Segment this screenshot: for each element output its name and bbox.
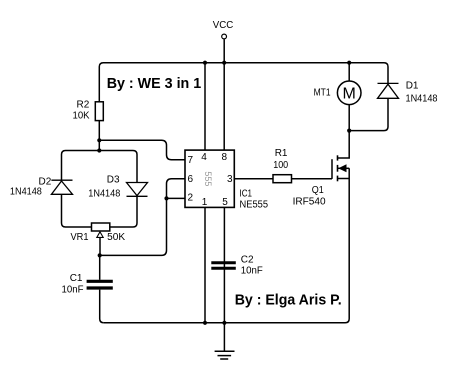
capacitor C2: [211, 263, 236, 269]
svg-text:C1: C1: [70, 273, 83, 284]
node motor/rail: [347, 61, 351, 65]
svg-text:Q1: Q1: [312, 185, 324, 196]
wire pin1 down: [204, 207, 206, 322]
node pin4/rail: [203, 61, 207, 65]
svg-text:NE555: NE555: [240, 200, 269, 211]
wire D1 bottom link: [349, 98, 388, 130]
wire motor bottom: [348, 105, 350, 131]
diode D2: [51, 180, 72, 194]
node VCC/rail: [222, 61, 226, 65]
ground: [215, 323, 235, 359]
wire pin8 up: [223, 63, 225, 150]
svg-text:555: 555: [203, 171, 213, 186]
svg-text:2: 2: [188, 193, 194, 204]
capacitor C1: [87, 281, 113, 288]
motor MT1: [337, 81, 361, 105]
svg-text:50K: 50K: [107, 232, 125, 243]
node motor D1 drain: [347, 129, 351, 133]
node pin1 rail: [203, 321, 207, 325]
wire wiper node to pins 2,6: [100, 198, 167, 255]
node wiper C1: [98, 253, 102, 257]
wire pin5 down: [223, 207, 225, 322]
wire diode bridge top left: [62, 151, 100, 181]
svg-text:1N4148: 1N4148: [406, 93, 438, 104]
wire pin2 stub: [167, 197, 186, 199]
svg-text:By : Elga Aris P.: By : Elga Aris P.: [235, 292, 342, 309]
svg-text:1: 1: [202, 197, 208, 208]
svg-text:VR1: VR1: [71, 232, 89, 243]
svg-text:D3: D3: [107, 175, 120, 186]
wire wiper node to C1: [99, 255, 101, 279]
svg-text:6: 6: [188, 174, 194, 185]
svg-text:7: 7: [188, 155, 194, 166]
svg-text:R2: R2: [77, 100, 90, 111]
wire bottom rail: [104, 168, 350, 322]
potentiometer VR1 wiper arrow: [97, 232, 103, 238]
resistor R1: [273, 175, 292, 183]
resistor R2: [95, 102, 103, 121]
transistor Q1: [332, 131, 349, 182]
wire wiper down: [99, 237, 101, 255]
node VCC terminal: [222, 34, 227, 39]
node R2 pin7: [97, 138, 101, 142]
wire diode bridge top right: [99, 151, 137, 183]
diode D3: [127, 183, 148, 197]
svg-text:4: 4: [201, 152, 207, 163]
svg-text:M: M: [343, 86, 356, 103]
svg-text:10nF: 10nF: [62, 285, 84, 296]
svg-text:10nF: 10nF: [241, 266, 263, 277]
svg-text:1N4148: 1N4148: [88, 189, 120, 200]
svg-text:8: 8: [222, 152, 228, 163]
svg-text:R1: R1: [275, 148, 288, 159]
svg-text:1N4148: 1N4148: [10, 186, 42, 197]
diode D1: [378, 83, 399, 98]
svg-text:100: 100: [273, 160, 288, 171]
wire R1 to gate: [292, 178, 333, 180]
wire D2 bottom: [62, 194, 92, 227]
svg-text:3: 3: [227, 174, 233, 185]
node diode bridge: [97, 148, 101, 152]
svg-text:VCC: VCC: [213, 20, 234, 31]
svg-text:D1: D1: [406, 81, 419, 92]
svg-text:MT1: MT1: [314, 88, 331, 99]
svg-text:IC1: IC1: [240, 188, 253, 199]
svg-text:10K: 10K: [73, 111, 90, 122]
svg-text:5: 5: [222, 197, 228, 208]
wire C1 to bottom rail: [100, 290, 104, 323]
wire top rail: [99, 63, 388, 102]
wire pin4 up: [204, 63, 206, 150]
node pin2 pin6: [164, 196, 168, 200]
IC U1 555 box: [185, 150, 234, 207]
wire motor top: [348, 63, 350, 81]
wire VCC drop: [223, 39, 225, 62]
potentiometer VR1: [92, 223, 110, 231]
wire D3 bottom: [110, 196, 137, 227]
wire pin6 link: [167, 179, 186, 199]
wire R2 to junction: [98, 121, 100, 151]
svg-text:By : WE 3 in 1: By : WE 3 in 1: [107, 75, 202, 92]
svg-text:C2: C2: [241, 254, 254, 265]
svg-text:IRF540: IRF540: [293, 197, 326, 208]
wire pin3 to R1: [234, 178, 273, 180]
node gnd rail: [222, 321, 226, 325]
wire junction to pin7: [99, 140, 185, 159]
